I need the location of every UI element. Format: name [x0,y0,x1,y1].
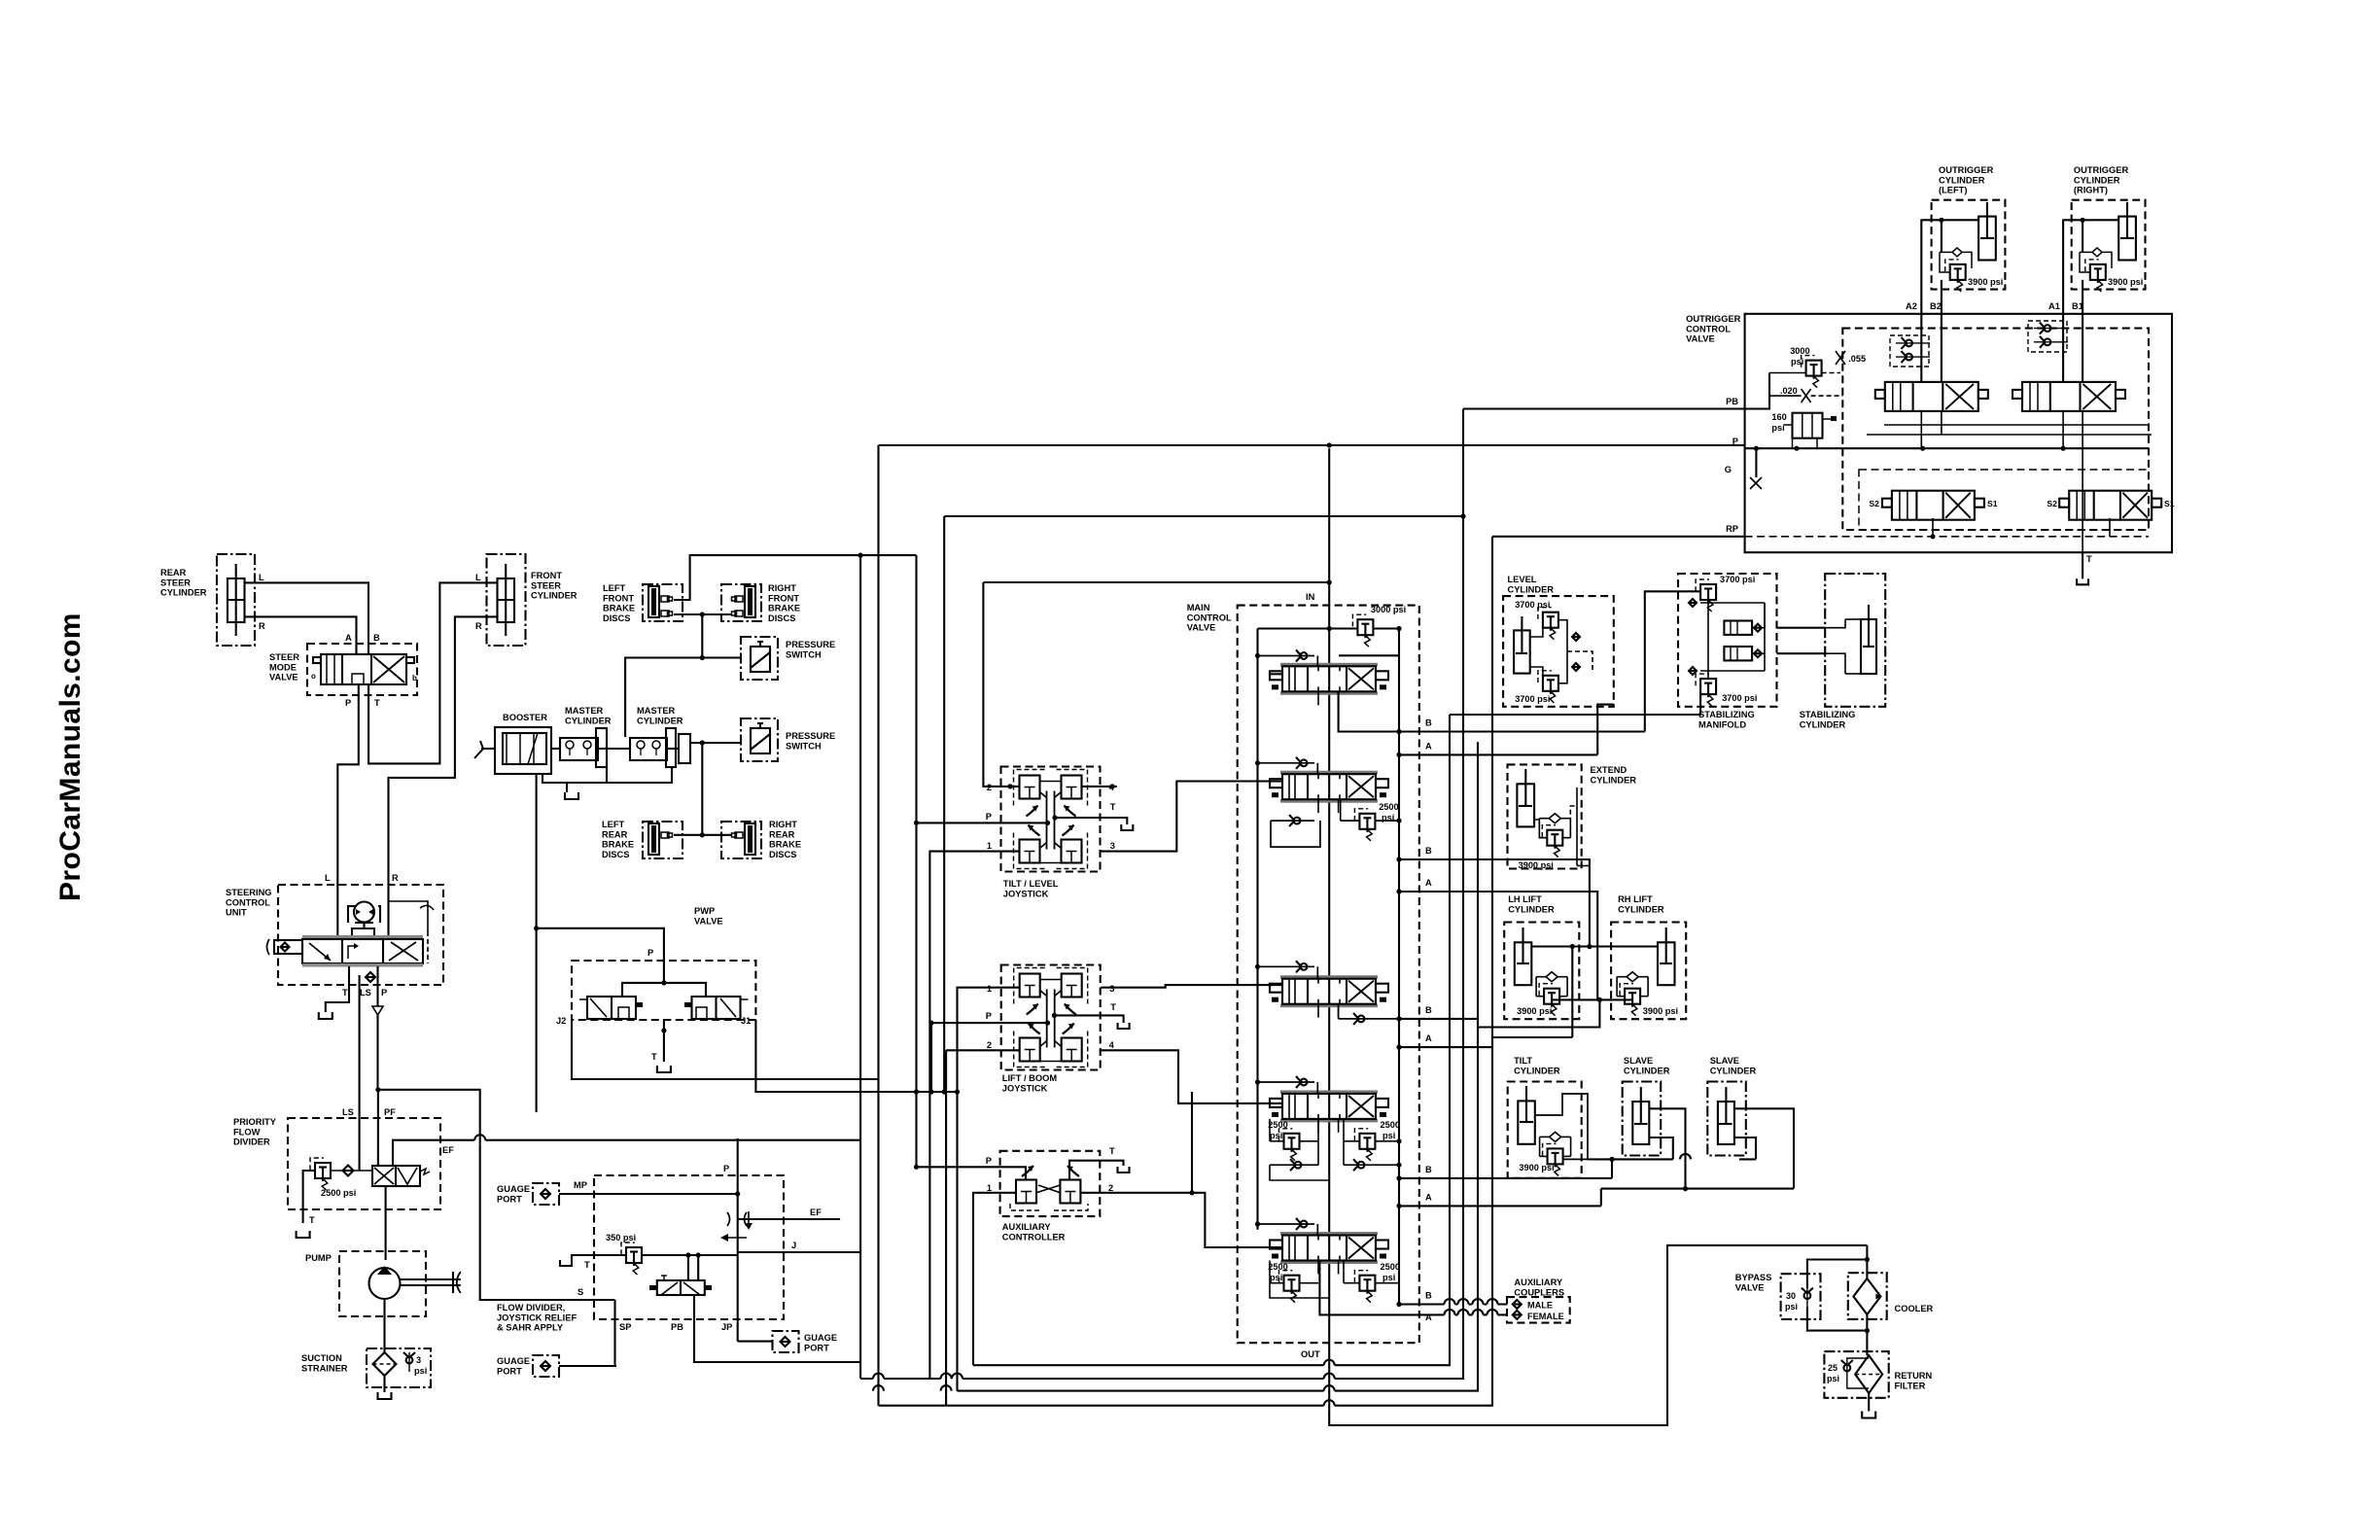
label B1 [2072,301,2083,311]
svg-text:JOYSTICK: JOYSTICK [1003,889,1049,898]
stab links [1700,600,1765,679]
label IN [1306,592,1315,602]
label T tilt [1110,802,1116,812]
wire hop at 1520,1352.4 [1473,1310,1484,1319]
svg-text:RIGHT: RIGHT [768,583,796,593]
svg-text:CYLINDER: CYLINDER [1591,775,1637,785]
svg-text:BRAKE: BRAKE [769,840,801,850]
svg-text:B: B [1425,1165,1432,1174]
scu P arrow [372,1006,383,1090]
label P fd [723,1164,729,1173]
svg-text:(LEFT): (LEFT) [1939,186,1967,195]
label B steer valve [373,633,380,643]
return filter [1855,1355,1882,1393]
svg-text:JP: JP [721,1322,732,1332]
wire T outrigger [2082,552,2092,578]
gauge port JP [773,1331,838,1352]
wire hop at 493.7,1172.7 [474,1135,485,1143]
wire outrigger mid rails [1859,425,2152,530]
svg-text:T: T [1110,1002,1116,1012]
check valve feed 4 [1255,1076,1317,1094]
svg-text:PUMP: PUMP [305,1253,332,1263]
label R front [475,621,482,631]
return filter box [1824,1351,1932,1398]
wire sahr top [688,1255,698,1280]
gauge port SP [497,1355,559,1377]
svg-text:LEFT: LEFT [602,820,625,829]
svg-text:MANIFOLD: MANIFOLD [1698,719,1746,729]
wire hop at 903.5,1430.6 [873,1385,884,1394]
wire B2 [1941,220,1942,382]
bypass valve box [1735,1273,1821,1319]
outrigger valve right [2012,382,2125,411]
extend cylinder box [1508,764,1637,868]
wire tilt out [1535,1094,1588,1159]
left front brake discs [603,583,682,623]
label 4 lift [1109,1040,1115,1050]
svg-text:30: 30 [1786,1291,1796,1301]
wire B3 line [1339,1004,1478,1025]
check valve feed 2 [1255,757,1317,774]
steer mode valve [269,644,417,695]
pwp T drain [661,1019,666,1062]
svg-text:VALVE: VALVE [694,916,723,926]
wire slave2 upper [1733,1108,1794,1188]
label R scu [392,873,399,883]
label A3 [1425,1033,1432,1043]
wire level B [1645,591,1700,731]
svg-text:A: A [1425,1192,1432,1202]
svg-text:FILTER: FILTER [1895,1381,1926,1390]
wire P fd [737,1138,739,1342]
wire lift port4 [1101,1050,1273,1103]
label A1 [2048,301,2060,311]
wire stab to cylinder [1777,628,1826,654]
wire A4 line [1396,1204,1600,1208]
svg-text:b: b [412,674,417,682]
svg-text:3700 psi: 3700 psi [1720,575,1755,584]
svg-text:REAR: REAR [769,829,795,839]
suction strainer box [301,1348,431,1387]
extend cb valve [1519,814,1571,870]
svg-text:LS: LS [342,1107,354,1117]
svg-text:FRONT: FRONT [603,593,634,603]
wire fd relief T [572,1255,626,1270]
svg-text:P: P [1732,437,1738,446]
outrigger control valve outer box [1686,314,2172,552]
scu LS check [366,972,375,982]
wire aux port1 [973,1193,1016,1365]
svg-text:2500: 2500 [1381,1120,1400,1130]
sahr valve [649,1276,712,1295]
tank strainer [378,1392,392,1399]
tilt cb valve [1519,1132,1570,1175]
right rear brake discs [721,820,801,859]
svg-text:REAR: REAR [602,829,628,839]
svg-text:R: R [475,621,482,631]
cooler box [1848,1273,1934,1319]
svg-text:2: 2 [987,1040,992,1050]
svg-text:B: B [1425,1005,1432,1015]
tank aux T [1118,1167,1130,1172]
svg-text:SUCTION: SUCTION [301,1353,342,1363]
wire disc supply [930,1023,932,1092]
spool 2 extend [1270,771,1388,803]
left rear brake discs [602,820,682,859]
svg-text:MAIN: MAIN [1187,603,1210,612]
svg-text:FRONT: FRONT [531,571,562,580]
fd arrow [720,1234,747,1242]
wire spool4 reliefs [1270,1119,1402,1165]
svg-text:FRONT: FRONT [768,593,799,603]
label A1 [1425,741,1432,751]
pwp P links [622,980,706,997]
svg-text:T: T [342,988,348,997]
level cylinder barrel [1514,616,1530,674]
check valve feed 5 [1255,1218,1317,1236]
svg-text:3700 psi: 3700 psi [1515,600,1550,610]
svg-text:VALVE: VALVE [1187,623,1216,633]
scu internal links [337,885,434,963]
svg-text:P: P [647,948,653,958]
svg-text:PORT: PORT [497,1194,522,1204]
relief 2500 spool5 right [1354,1262,1400,1303]
spool 3 lift [1270,975,1388,1007]
svg-text:psi: psi [1382,1273,1395,1282]
wire spool2 relief line [1341,799,1402,823]
label L rear [259,573,264,582]
outrigger cb left [1940,248,2003,292]
svg-text:B2: B2 [1930,301,1942,311]
wire hop at 1535,1352.4 [1487,1310,1498,1319]
svg-text:CONTROL: CONTROL [1187,612,1232,622]
svg-text:R: R [259,621,265,631]
wire B2 line [1396,857,1590,946]
svg-text:3900 psi: 3900 psi [1968,277,2003,287]
label J1 [741,1016,751,1026]
label P tilt [986,812,992,822]
label T lift [1110,1002,1116,1012]
wire ports spool 1 level [1318,691,1339,705]
svg-text:DIVIDER: DIVIDER [233,1137,270,1147]
outrigger check pair right [2028,321,2068,352]
outrigger cylinder right box [2072,165,2146,290]
slave 1 barrel [1632,1087,1649,1144]
svg-text:MASTER: MASTER [565,706,604,716]
wire hop at 1491,1341.5 [1445,1299,1455,1308]
svg-text:CYLINDER: CYLINDER [531,591,577,601]
wire aux port2 [1080,1193,1273,1247]
suction bypass 3 psi [403,1352,427,1376]
svg-text:PRESSURE: PRESSURE [786,731,835,741]
tilt level joystick [1001,767,1101,899]
svg-text:CYLINDER: CYLINDER [1710,1066,1757,1075]
slave 2 barrel [1718,1087,1734,1144]
svg-text:CYLINDER: CYLINDER [1939,175,1985,185]
pump box [305,1251,426,1316]
wire J [738,1251,860,1253]
wire vertical p4b [943,516,945,1092]
svg-text:psi: psi [1771,423,1784,433]
svg-text:160: 160 [1771,412,1786,422]
booster [474,713,551,774]
wire LS steering to pfd [359,975,361,1171]
spool 5 aux [1270,1232,1388,1264]
svg-text:DISCS: DISCS [769,850,796,859]
wire PB inner [1745,373,1769,409]
flow divider box [594,1175,784,1319]
stab relief top [1689,575,1755,612]
svg-text:AUXILIARY: AUXILIARY [1514,1277,1563,1287]
wire vertical p2 [877,445,879,1406]
wire booster to pwp P [534,926,664,983]
wire hop at 1505,1352.4 [1458,1310,1469,1319]
label 2 aux [1108,1183,1113,1193]
svg-text:STABILIZING: STABILIZING [1698,710,1755,719]
svg-text:JOYSTICK: JOYSTICK [1002,1083,1048,1093]
wire feed spool 3 lift [1270,984,1282,986]
svg-text:CONTROLLER: CONTROLLER [1002,1232,1066,1242]
level cb valve top [1515,600,1558,640]
svg-text:P: P [723,1164,729,1173]
pressure switch upper [741,637,835,680]
level cb valve bottom [1515,671,1558,704]
right trunk [1398,629,1400,1305]
outrigger lower valve right [2047,491,2174,520]
svg-text:SWITCH: SWITCH [786,649,822,659]
auxiliary controller [1000,1151,1101,1242]
svg-text:2500: 2500 [1379,802,1398,812]
wire left rail [1258,629,1330,1230]
svg-text:T: T [651,1052,657,1062]
wire IN [1328,448,1330,1343]
svg-text:B: B [373,633,380,643]
wire front discs lower [674,612,731,657]
svg-text:REAR: REAR [160,568,187,577]
label R rear [259,621,265,631]
svg-text:BRAKE: BRAKE [603,604,635,613]
label PB fd [671,1322,683,1332]
wire bottom lattice 1 [973,715,1450,1365]
svg-text:ProCarManuals.com: ProCarManuals.com [54,612,87,901]
stabilizing manifold box [1678,574,1777,729]
master cylinder 2 [630,706,690,767]
priority valve [372,1166,430,1186]
wire hop at 973.1,1418 [941,1374,952,1383]
wire cooler line [1866,1245,1868,1355]
wire feed spool 1 level [1270,673,1282,675]
label P aux [986,1156,992,1166]
svg-text:LH LIFT: LH LIFT [1508,894,1542,904]
svg-text:G: G [1725,465,1732,474]
svg-text:P: P [986,1156,992,1166]
sequence valve 160 psi [1771,412,1837,438]
svg-text:TILT / LEVEL: TILT / LEVEL [1003,879,1059,889]
lift boom joystick [1001,965,1101,1094]
pfd check [343,1166,354,1176]
svg-text:2500: 2500 [1268,1120,1287,1130]
label A2 [1425,878,1432,888]
wire lift riser A [1492,947,1572,1048]
label A steer valve [345,633,352,643]
svg-text:COUPLERS: COUPLERS [1514,1287,1564,1297]
wire lift port1 [958,988,1020,1391]
wire front steer L to steer mode valve T [368,582,497,763]
svg-text:psi: psi [1785,1302,1798,1312]
label B4 [1425,1165,1432,1174]
svg-text:(RIGHT): (RIGHT) [2074,186,2108,195]
relief 2500 spool2 [1354,802,1398,841]
label B2 [1425,846,1432,856]
wire lift P [928,1021,1050,1026]
svg-text:L: L [475,573,481,582]
svg-text:IN: IN [1306,592,1315,602]
label OUT [1301,1349,1320,1359]
wire A1 [2063,218,2118,382]
extend links [1534,787,1577,866]
svg-text:RH LIFT: RH LIFT [1618,894,1653,904]
pwp valve box [572,906,755,1020]
svg-text:PB: PB [671,1322,683,1332]
spool 1 level [1270,663,1388,695]
wire EF from pfd [393,1140,860,1166]
wire A2 [1921,218,1978,382]
svg-text:L: L [259,573,264,582]
label 4 tilt [1109,783,1115,792]
wire booster down [536,774,538,1112]
lh lift cylinder box [1504,894,1579,1019]
coupler male [1513,1300,1553,1311]
label 1 lift [987,984,992,994]
return bypass 25psi [1827,1358,1869,1388]
steering gerotor [348,902,380,924]
svg-text:SWITCH: SWITCH [786,741,822,751]
wire pilot rail [914,555,919,1170]
tank scu T [319,1012,332,1019]
label J2 [556,1016,566,1026]
svg-text:VALVE: VALVE [1735,1282,1765,1292]
svg-text:T: T [1110,802,1116,812]
wire SP [613,1300,615,1366]
wire hop at 1367.2,1404.2 [1324,1360,1335,1370]
svg-text:PRESSURE: PRESSURE [786,640,835,649]
wire spool1 B out [1339,691,1399,732]
orifice .055 [1836,351,1866,365]
wire pump S branch [378,1090,615,1300]
wire level A [1597,705,1614,755]
svg-text:S: S [577,1287,583,1297]
svg-text:GUAGE: GUAGE [497,1184,530,1194]
fd EF orifice [727,1211,752,1230]
wire lift riser B [1478,999,1599,1027]
svg-text:S2: S2 [1869,499,1879,508]
svg-text:COOLER: COOLER [1895,1304,1934,1313]
spool 4 tilt [1270,1090,1388,1122]
wire ports spool 4 tilt [1318,1119,1339,1133]
label B3 [1425,1005,1432,1015]
label T scu [342,988,348,997]
svg-text:psi: psi [1270,1273,1282,1282]
wire EF fd [738,1218,840,1220]
wire hop at 1520,1341.5 [1473,1299,1484,1308]
wire RP inner [1745,536,2149,538]
svg-text:AUXILIARY: AUXILIARY [1002,1222,1052,1232]
wire A2 line [1396,889,1597,999]
wire rear steer R to steer mode valve A [245,616,357,654]
svg-text:CYLINDER: CYLINDER [1800,719,1846,729]
label A2 [1906,301,1917,311]
svg-text:R: R [392,873,399,883]
wire bottom lattice 3 [958,742,1479,1390]
wire hop at 1535,1341.5 [1487,1299,1498,1308]
label A5 [1425,1312,1432,1322]
wire hop at 984.5,1418 [952,1374,962,1383]
label PB [1726,397,1738,406]
wire aux P [917,1167,1027,1179]
wire scu T to tank [326,966,349,1012]
svg-text:LIFT / BOOM: LIFT / BOOM [1002,1073,1058,1083]
wire pfd relief drain to tank [303,1171,315,1223]
svg-text:B1: B1 [2072,301,2083,311]
svg-text:L: L [325,873,331,883]
wire J1 [755,1020,957,1095]
wire hop at 1505,1341.5 [1458,1299,1469,1308]
wire A1 line [1396,752,1597,757]
svg-text:T: T [309,1215,315,1225]
wire spool5 reliefs [1270,1261,1399,1299]
pressure switch lower [741,718,835,761]
wire lower valves [1930,518,2110,540]
svg-text:OUTRIGGER: OUTRIGGER [1686,314,1741,324]
rh lift cylinder box [1611,894,1686,1019]
auxiliary couplers box [1507,1277,1570,1323]
rh cb valve [1617,972,1678,1016]
pwp valve left [579,997,643,1019]
tank outrigger T [2077,578,2088,584]
svg-text:CYLINDER: CYLINDER [565,716,612,725]
label 1 aux [987,1183,992,1193]
svg-text:3: 3 [416,1355,421,1365]
svg-text:PORT: PORT [497,1366,522,1376]
svg-text:1: 1 [987,1183,992,1193]
stab relief bottom [1689,667,1757,706]
level cylinder box [1503,575,1614,707]
relief 3000 psi [1352,605,1406,647]
svg-text:P: P [345,698,351,708]
wire slave1 upper [1649,1108,1686,1188]
stab cartridge 2 [1724,647,1762,660]
label JP [721,1322,732,1332]
wire A4 to slaves [1600,1189,1602,1207]
svg-text:OUT: OUT [1301,1349,1320,1359]
svg-text:STEER: STEER [531,580,561,590]
label T steer valve [374,698,380,708]
wire relief 3000 line [1327,626,1402,631]
svg-text:CYLINDER: CYLINDER [1508,904,1555,914]
svg-text:2: 2 [987,783,992,792]
wire tilt P [917,821,1051,825]
wire B4 to slaves [1611,1159,1613,1178]
relief 2500 spool4 right [1354,1120,1400,1161]
svg-text:CYLINDER: CYLINDER [1514,1066,1560,1075]
label B1 [1425,718,1432,728]
svg-text:UNIT: UNIT [226,908,247,918]
svg-text:FEMALE: FEMALE [1527,1312,1564,1321]
svg-text:1: 1 [987,984,992,994]
wire front steer R to steering unit R [389,616,498,885]
svg-text:STABILIZING: STABILIZING [1800,710,1856,719]
svg-text:CONTROL: CONTROL [226,897,270,907]
